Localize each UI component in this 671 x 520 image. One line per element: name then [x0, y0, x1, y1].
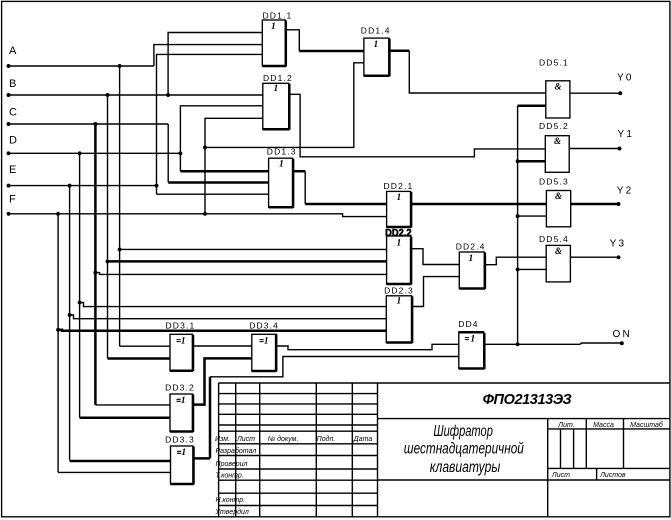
wire F feed to DD3.3 in2 [58, 471, 170, 473]
and-gate DD5.4 [539, 234, 570, 282]
svg-text:DD1.4: DD1.4 [361, 26, 391, 36]
junction enable bus DD5.3 [516, 214, 520, 218]
junction on E at riser [155, 184, 159, 188]
svg-text:DD2.3: DD2.3 [384, 286, 414, 296]
wire DD1.4 output to DD5.1 in1 [389, 50, 409, 53]
node Y2 output terminal [617, 186, 634, 206]
svg-text:B: B [9, 78, 16, 90]
svg-text:Y1: Y1 [618, 129, 635, 140]
wire DD3.4 output to DD4 in1 [277, 344, 459, 349]
wire C down to DD1.3 in2 [167, 124, 169, 183]
junction on B at bus [106, 93, 110, 97]
junction on B at DD1.1 riser [166, 93, 170, 97]
junction enable bus ON line [516, 342, 520, 346]
wire DD4 output to ON terminal [484, 343, 622, 344]
wire D feed to DD3.2 in2 [80, 416, 170, 419]
wire A feed to DD2.2 in1 [120, 248, 387, 250]
wire F branch to DD1.4 in2 [205, 63, 364, 148]
svg-text:D: D [9, 134, 17, 146]
svg-text:DD2.2: DD2.2 [385, 228, 412, 239]
wire E feed to DD2.3 in2 [70, 315, 387, 319]
svg-text:Y0: Y0 [617, 73, 634, 84]
svg-text:&: & [555, 191, 562, 201]
wire F feed to DD2.3 in3 [58, 330, 386, 331]
wire bus D down [79, 153, 81, 417]
svg-text:Н.контр.: Н.контр. [216, 497, 246, 504]
svg-text:1: 1 [279, 159, 284, 169]
svg-text:1: 1 [397, 238, 402, 248]
wire DD1.3 output to DD2.1 in1 [293, 170, 306, 173]
wire DD1.1 output to DD1.4 in1 [285, 30, 299, 51]
wire DD2.1 output to DD5.3 in1 [411, 203, 547, 206]
svg-text:Проверил: Проверил [216, 461, 248, 468]
junction on D at bus [78, 151, 82, 155]
svg-text:Изм.: Изм. [215, 436, 230, 443]
svg-text:DD3.2: DD3.2 [165, 383, 195, 393]
title block [215, 383, 670, 517]
wire C feed to DD2.2 in3 [95, 273, 386, 275]
wire bus B down [107, 95, 109, 359]
svg-text:DD3.1: DD3.1 [166, 320, 196, 330]
svg-text:1: 1 [181, 448, 186, 458]
junction on A at bus [118, 64, 122, 68]
wire DD3.2 output to DD3.4 in2 [193, 358, 252, 404]
svg-text:1: 1 [470, 335, 475, 345]
svg-text:Т.контр.: Т.контр. [216, 472, 244, 479]
svg-text:Листов: Листов [599, 472, 626, 479]
svg-text:DD4: DD4 [458, 319, 478, 329]
wire DD1.2 output to DD5.2 in1 [289, 94, 546, 157]
svg-text:ON: ON [613, 329, 632, 340]
node Y0 output terminal [617, 73, 634, 96]
node Y3 output terminal [610, 239, 627, 260]
junction D-bus tap to DD2.3 [78, 301, 82, 305]
svg-text:C: C [9, 107, 17, 119]
svg-text:Лист: Лист [551, 472, 570, 479]
svg-text:№ докум.: № докум. [268, 435, 299, 443]
svg-text:1: 1 [374, 40, 379, 50]
svg-text:1: 1 [397, 297, 402, 307]
node D input terminal and label [7, 134, 17, 155]
svg-text:DD3.3: DD3.3 [165, 435, 195, 445]
svg-text:DD1.3: DD1.3 [267, 147, 297, 157]
or-gate DD2.3 [384, 286, 414, 343]
wire B up to DD1.1 in1 [168, 33, 262, 96]
svg-text:DD5.4: DD5.4 [539, 234, 569, 244]
wire bus A down [119, 66, 121, 346]
svg-text:DD5.2: DD5.2 [539, 121, 569, 131]
wire DD3.1 output to DD3.4 in1 [192, 345, 252, 347]
or-gate DD1.1 [262, 11, 292, 67]
junction enable bus DD5.4 [516, 267, 520, 271]
svg-text:Y3: Y3 [610, 239, 627, 250]
junction enable bus DD5.2 [516, 159, 520, 163]
node C input terminal and label [7, 107, 17, 126]
wire bus to DD5.2 in2 [518, 160, 546, 163]
node F input terminal and label [7, 193, 16, 215]
svg-text:DD1.2: DD1.2 [263, 73, 293, 83]
node Y1 output terminal [618, 129, 635, 150]
wire bus F down [57, 214, 59, 473]
junction on D at riser [178, 151, 182, 155]
svg-text:DD1.1: DD1.1 [263, 11, 293, 21]
wire bus to DD5.1 in2 [518, 104, 546, 107]
junction on F at bus [56, 212, 60, 216]
svg-text:A: A [9, 45, 17, 57]
svg-text:шестнадцатеричной: шестнадцатеричной [404, 441, 524, 458]
svg-text:1: 1 [397, 193, 402, 203]
wire E horizontal [9, 185, 157, 187]
xor-gate DD3.4 [249, 320, 279, 371]
wire B horizontal to DD1.2 in1 [9, 94, 263, 96]
junction C-bus tap to DD2.2 [93, 271, 97, 275]
svg-text:&: & [554, 136, 561, 146]
svg-text:Лит.: Лит. [557, 422, 574, 429]
wire A up to DD1.1 in2 [154, 45, 262, 66]
and-gate DD5.2 [539, 121, 569, 172]
svg-text:1: 1 [181, 336, 186, 346]
wire DD5.4 output to Y3 [570, 256, 618, 258]
svg-text:Дата: Дата [353, 436, 373, 443]
svg-text:Масса: Масса [593, 422, 614, 429]
svg-text:E: E [9, 164, 16, 176]
wire D vertical up to DD1.2 in2 and down to DD1.3 in1 [180, 106, 262, 171]
wire D horizontal [9, 152, 181, 154]
or-gate DD2.2 [385, 228, 412, 285]
wire bus E down [69, 186, 71, 461]
or-gate DD1.3 [267, 147, 297, 208]
wire enable bus vertical [517, 106, 519, 345]
xor-gate DD3.2 [165, 383, 195, 432]
wire C feed to DD3.2 in1 [95, 404, 170, 406]
wire B feed to DD2.2 in2 [108, 260, 387, 263]
wire E vertical up to DD1.1 in3 and down to DD1.3 in3 [157, 54, 263, 194]
junction on E at bus [68, 184, 72, 188]
wire C horizontal [9, 123, 169, 125]
wire F horizontal to DD2.1 in2 [9, 214, 387, 217]
wire DD5.2 output to Y1 [569, 148, 619, 150]
wire A feed to DD3.1 in1 [120, 345, 170, 347]
or-gate DD1.4 [361, 26, 391, 77]
svg-text:Подп.: Подп. [317, 435, 336, 443]
wire DD5.1 output to Y0 [570, 92, 620, 94]
junction E-bus tap to DD2.3 [68, 313, 72, 317]
wire E feed to DD3.3 in1 [70, 460, 171, 463]
and-gate DD5.1 [539, 58, 570, 118]
svg-text:&: & [555, 81, 562, 91]
svg-text:Утвердил: Утвердил [215, 508, 249, 516]
wire DD2.4 output to DD5.4 in1 [484, 257, 546, 265]
svg-text:Y2: Y2 [617, 186, 634, 197]
wire bus to DD5.4 in2 [518, 268, 547, 270]
xor-gate DD3.1 [166, 320, 196, 371]
svg-text:1: 1 [274, 84, 279, 94]
junction F-bus tap to DD2.3 [56, 328, 60, 332]
junction on F at riser [203, 212, 207, 216]
wire bus C down (thick) [94, 124, 97, 405]
wire D feed to DD2.3 in1 [80, 303, 387, 307]
wire B feed to DD3.1 in2 [108, 357, 171, 360]
svg-text:DD2.4: DD2.4 [456, 242, 486, 252]
node A input terminal and label [7, 45, 17, 68]
svg-text:1: 1 [181, 396, 186, 406]
svg-text:DD5.3: DD5.3 [539, 177, 569, 187]
junction A-bus tap to DD2.2 [118, 247, 122, 251]
wire F up to DD1.2 in3 [205, 118, 263, 214]
svg-text:Шифратор: Шифратор [433, 423, 493, 440]
and-gate DD5.3 [539, 177, 571, 227]
svg-text:клавиатуры: клавиатуры [430, 459, 501, 476]
svg-text:DD5.1: DD5.1 [539, 58, 569, 68]
node E input terminal and label [7, 164, 17, 188]
xor-gate DD4 [458, 319, 484, 369]
wire A horizontal [9, 65, 154, 67]
or-gate DD2.1 [384, 181, 414, 227]
svg-text:1: 1 [264, 336, 269, 346]
node B input terminal and label [7, 78, 17, 97]
node ON output terminal [613, 329, 632, 345]
wire DD2.2 output to DD2.4 in1 [411, 249, 460, 265]
wire DD3.3 output to DD4 in2 [193, 457, 210, 460]
svg-text:ФПО21313ЭЗ: ФПО21313ЭЗ [483, 392, 572, 408]
wire bus to DD5.3 in2 [518, 215, 547, 217]
xor-gate DD3.3 [165, 435, 195, 485]
svg-text:1: 1 [271, 22, 276, 32]
svg-text:1: 1 [469, 254, 474, 264]
svg-text:DD2.1: DD2.1 [384, 181, 414, 191]
svg-text:Разработал: Разработал [216, 447, 257, 455]
wire DD2.3 output to DD2.4 in2 [412, 277, 460, 307]
svg-text:DD3.4: DD3.4 [249, 320, 279, 330]
or-gate DD2.4 [456, 242, 486, 289]
svg-text:Масштаб: Масштаб [630, 421, 664, 429]
svg-text:&: & [555, 246, 562, 256]
svg-text:F: F [9, 193, 16, 205]
wire DD5.3 output to Y2 [571, 203, 619, 206]
svg-text:Лист: Лист [236, 436, 255, 443]
or-gate DD1.2 [263, 73, 293, 130]
junction on C at bus [93, 122, 97, 126]
junction on F riser to DD1.4 [203, 145, 207, 149]
junction B-bus tap to DD2.2 [106, 259, 110, 263]
